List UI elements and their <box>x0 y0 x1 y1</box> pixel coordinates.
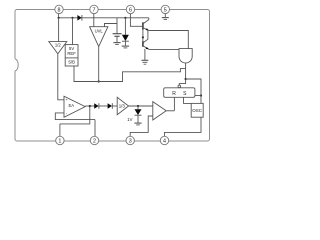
transistor Q2 <box>143 31 149 50</box>
wire: latch R stub to comparator output <box>173 97 175 110</box>
ground (zener) <box>122 46 129 48</box>
ground (Q2 emitter) <box>142 49 149 64</box>
svg-text:REF: REF <box>67 51 76 56</box>
pin 1 <box>56 136 64 144</box>
wire: EA output to pin 1 <box>60 106 90 124</box>
wire: OSC bottom to pin 4 <box>165 117 202 136</box>
pin 5 <box>161 5 169 13</box>
wire: Q2 emitter rail to gate left <box>149 49 179 51</box>
battery B1 <box>113 18 122 43</box>
wire: comparator output to latch R <box>166 110 174 112</box>
svg-text:1/2: 1/2 <box>55 43 61 48</box>
wire: EA inverting input to pin 2 <box>55 113 95 120</box>
wire: REF box top tap <box>72 18 74 45</box>
ground (battery) <box>113 43 120 45</box>
package outline <box>15 10 210 142</box>
wire: Q1 emitter rail to gate top <box>149 31 189 49</box>
wire: stem to 1/2 divider <box>58 18 60 42</box>
UVLO comparator U3 <box>90 27 108 47</box>
wire: UVLO output down to S/B rail <box>98 47 100 82</box>
svg-text:R: R <box>172 91 176 97</box>
wire <box>112 105 117 107</box>
zener D7 (1V clamp) <box>135 106 142 123</box>
svg-text:1/3: 1/3 <box>119 104 126 109</box>
svg-text:EA: EA <box>69 103 75 108</box>
wire: EA output <box>85 105 94 107</box>
wire: gate output down to latch <box>179 69 185 85</box>
wire: branch right to OSC top <box>186 79 201 103</box>
pin 4 <box>160 136 168 144</box>
svg-text:5: 5 <box>164 7 167 13</box>
wire: pin 5 stem <box>164 13 166 17</box>
wire: pin 6 stem to driver base <box>130 13 143 26</box>
wire: divider output down to EA + input <box>58 54 64 100</box>
wire: pin 1 stem <box>59 124 61 136</box>
svg-text:7: 7 <box>93 7 96 13</box>
pin 7 <box>90 5 98 13</box>
svg-text:1V: 1V <box>127 117 132 122</box>
svg-text:1: 1 <box>58 138 61 144</box>
diode D6 <box>108 103 113 109</box>
diode D5 <box>94 103 99 109</box>
node: junction at REF box tap <box>71 17 73 19</box>
ground (pin 5) <box>162 18 169 20</box>
wire: base tie Q1-Q2 <box>142 30 144 42</box>
pin 8 <box>55 5 63 13</box>
node: junction at zener tap on rail <box>124 17 126 19</box>
transistor Q1 <box>143 18 149 31</box>
divider A2 (1/3) <box>117 97 128 114</box>
wire: pin 7 stem down to UVLO <box>93 13 95 26</box>
node: junction zener tap <box>137 105 139 107</box>
zener D4 on Vcc rail <box>122 18 129 46</box>
error amp EA <box>64 96 85 117</box>
svg-text:OSC: OSC <box>192 108 203 113</box>
wire: A2 output to comparator <box>129 105 153 107</box>
svg-text:UVL: UVL <box>95 28 104 33</box>
comparator U4 <box>153 102 166 120</box>
wire: gate output stub <box>185 63 187 69</box>
node: junction latch-right tap <box>200 94 202 96</box>
node: junction on base tie <box>142 36 144 38</box>
wire: pin 3 to comparator inverting input <box>130 116 153 136</box>
wire: top rail from pin 8 to Q1 collector <box>59 17 149 19</box>
svg-text:4: 4 <box>163 138 166 144</box>
package notch <box>14 59 18 71</box>
regulator block U2 (5V REF / S-B) <box>65 45 78 66</box>
wire: latch right edge tap <box>195 95 201 97</box>
svg-text:2: 2 <box>93 138 96 144</box>
svg-text:6: 6 <box>129 7 132 13</box>
wire: pin 8 stem <box>58 13 60 17</box>
oscillator U6 (OSC) <box>191 103 203 117</box>
AND gate U7 <box>179 49 192 63</box>
wire <box>99 105 108 107</box>
node: junction on gate output <box>185 78 187 80</box>
svg-text:3: 3 <box>129 138 132 144</box>
wire: pin 2 stem <box>94 120 96 137</box>
ground (zener 1V) <box>134 123 141 125</box>
reference divider A1 (1/2) <box>49 42 67 54</box>
pin 3 <box>126 136 134 144</box>
latch U5 (R-S) <box>164 88 195 98</box>
svg-text:8: 8 <box>58 7 61 13</box>
pin 2 <box>90 136 98 144</box>
pin 6 <box>126 5 134 13</box>
wire: UVLO right input to battery column <box>105 24 118 27</box>
diode D3 on top rail <box>77 15 82 21</box>
wire: latch S stub to OSC <box>184 97 192 103</box>
svg-text:S/B: S/B <box>68 60 75 65</box>
wire: S/B output rail to gate <box>74 66 186 82</box>
inverter bubble at latch S input <box>178 85 181 88</box>
node: junction EA output <box>89 105 91 107</box>
node: junction UVLO output on S/B rail <box>98 80 100 82</box>
node: junction under pin 8 <box>58 17 60 19</box>
